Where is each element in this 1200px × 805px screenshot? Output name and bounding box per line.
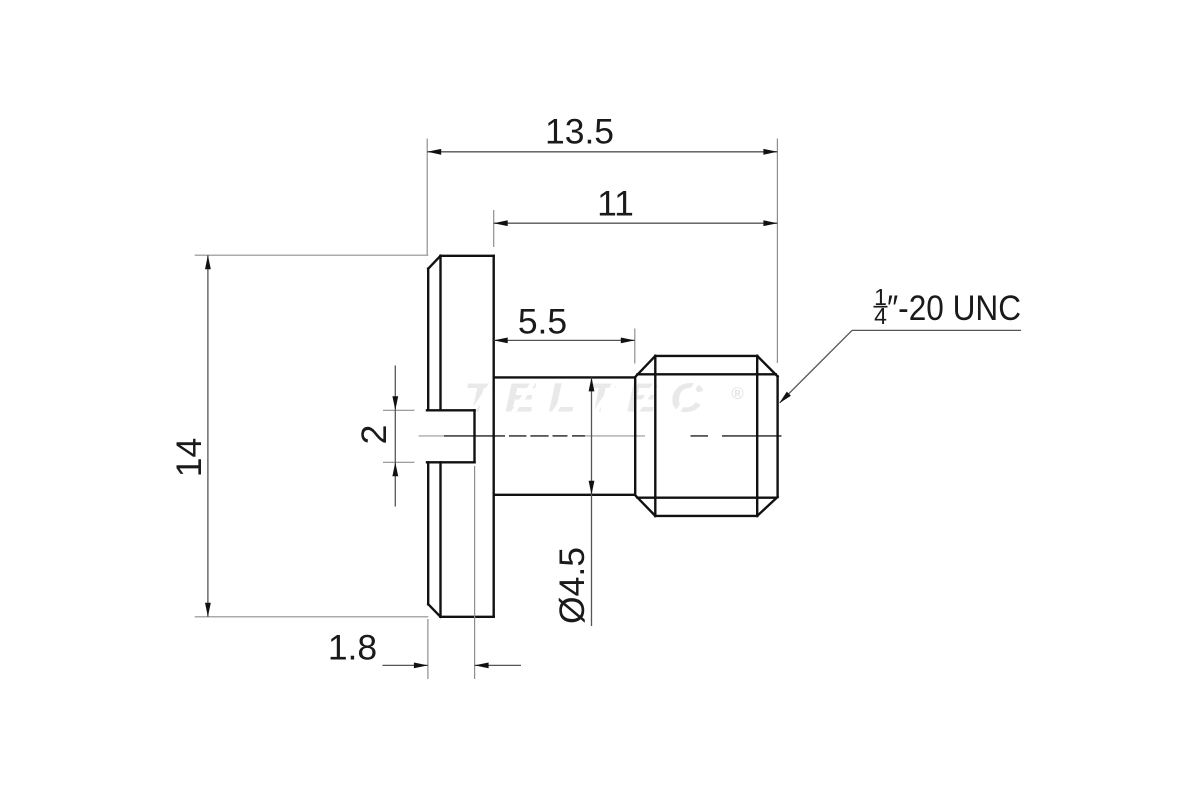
dimension diameter 4.5 bbox=[552, 377, 594, 626]
dimension 2 bbox=[354, 366, 398, 507]
svg-text:2: 2 bbox=[354, 425, 394, 445]
svg-text:11: 11 bbox=[597, 184, 634, 224]
head slot bbox=[427, 410, 475, 462]
dimension 5.5 bbox=[494, 302, 635, 344]
centerline dark dashes bbox=[444, 435, 782, 437]
svg-text:13.5: 13.5 bbox=[545, 112, 614, 152]
svg-text:″-20 UNC: ″-20 UNC bbox=[887, 288, 1021, 328]
svg-text:5.5: 5.5 bbox=[518, 302, 567, 342]
dimension 11 bbox=[494, 184, 778, 227]
centerline gray segments bbox=[419, 435, 646, 437]
dimension 14 bbox=[169, 255, 211, 617]
leader 1/4-20 UNC bbox=[779, 284, 1021, 403]
watermark slash cuts bbox=[471, 383, 697, 414]
head outline bbox=[428, 256, 494, 617]
watermark TELTEC bbox=[464, 375, 744, 421]
svg-text:4: 4 bbox=[874, 303, 887, 329]
shaft bbox=[494, 377, 635, 494]
threaded end bbox=[635, 356, 778, 516]
dimension 13.5 bbox=[427, 112, 777, 155]
svg-text:Ø4.5: Ø4.5 bbox=[552, 547, 592, 624]
dimension 1.8 bbox=[328, 628, 521, 669]
svg-text:1.8: 1.8 bbox=[328, 628, 377, 668]
svg-text:®: ® bbox=[731, 384, 744, 403]
extension lines bbox=[195, 139, 778, 680]
svg-text:14: 14 bbox=[169, 438, 209, 478]
